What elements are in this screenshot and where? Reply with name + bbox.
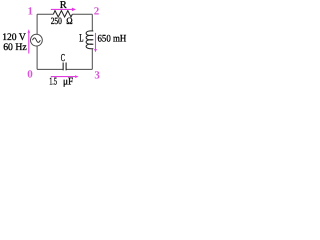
svg-text:R: R [60, 0, 67, 11]
wire bottom-left segment [37, 68, 63, 70]
svg-text:0: 0 [27, 68, 33, 80]
current arrow right of inductor [94, 33, 97, 53]
node 2 label [94, 6, 100, 18]
wire right upper segment [91, 14, 93, 31]
wire right lower segment [91, 49, 93, 70]
wire top-left segment [37, 13, 53, 15]
wire left upper segment [36, 14, 38, 34]
wire left lower segment [36, 46, 38, 69]
svg-text:1: 1 [27, 5, 33, 17]
svg-text:Ω: Ω [66, 16, 72, 27]
node 3 label [94, 69, 100, 81]
resistor R label [60, 0, 67, 11]
svg-text:2: 2 [94, 6, 100, 18]
node 0 label [27, 68, 33, 80]
node 1 label [27, 5, 33, 17]
wire bottom-right segment [66, 68, 92, 70]
svg-text:1.5: 1.5 [49, 76, 57, 87]
svg-text:L: L [79, 33, 83, 45]
AC voltage source [31, 34, 43, 46]
svg-text:250: 250 [51, 16, 62, 27]
svg-text:650 mH: 650 mH [98, 33, 127, 44]
resistor R [53, 11, 72, 17]
capacitor unit label μF [63, 76, 73, 87]
svg-text:μF: μF [63, 76, 73, 87]
svg-text:3: 3 [94, 69, 100, 81]
svg-text:C: C [61, 53, 65, 64]
resistor unit label Ω [66, 16, 72, 27]
capacitor C label [61, 53, 65, 64]
capacitor value label 1.5 [49, 76, 57, 87]
inductor L label [79, 33, 83, 45]
inductor value label 650 mH [98, 33, 127, 44]
svg-text:60 Hz: 60 Hz [3, 42, 27, 53]
source frequency label 60 Hz [3, 42, 27, 53]
inductor L [86, 31, 93, 49]
wire top-right segment [72, 13, 92, 15]
resistor value label 250 [51, 16, 62, 27]
current arrow left of source [28, 29, 31, 53]
current arrow below capacitor [51, 75, 79, 78]
current arrow above resistor [51, 8, 76, 12]
source value label 120 V [2, 32, 26, 43]
capacitor C [63, 63, 66, 71]
